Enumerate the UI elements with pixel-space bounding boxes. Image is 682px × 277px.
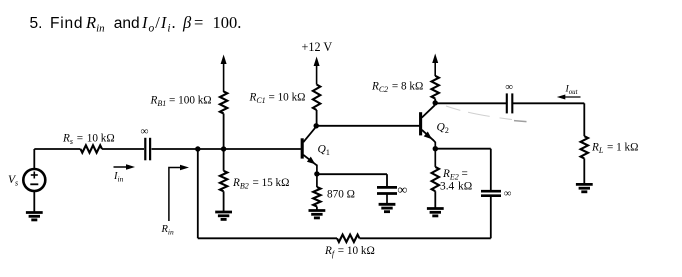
current arrow I_in: [113, 164, 135, 183]
ground (CE1): [379, 194, 396, 212]
svg-text:Iin: Iin: [113, 171, 124, 184]
svg-text:Iout: Iout: [565, 84, 579, 97]
annotation arrow R_in: [161, 165, 190, 237]
svg-text:Io/Ii.: Io/Ii.: [141, 13, 177, 35]
svg-text:Q1: Q1: [318, 144, 330, 158]
svg-text:RC2 = 8 kΩ: RC2 = 8 kΩ: [371, 81, 423, 95]
wire Cout to RL: [513, 103, 584, 136]
svg-text:+12 V: +12 V: [302, 40, 333, 54]
svg-text:Rin: Rin: [161, 224, 175, 237]
scan artifact curve: [446, 106, 512, 120]
resistor Rs 10k: [62, 133, 115, 153]
supply arrow (RB1): [221, 55, 227, 93]
capacitor Cout (infinite): [506, 82, 514, 113]
node Q2 collector: [433, 100, 438, 105]
svg-text:∞: ∞: [504, 189, 512, 200]
svg-text:RL = 1 kΩ: RL = 1 kΩ: [591, 142, 638, 156]
svg-text:870 Ω: 870 Ω: [327, 189, 355, 201]
svg-text:Vs: Vs: [8, 174, 18, 188]
+12 V supply label: [302, 40, 333, 54]
svg-text:RC1 = 10 kΩ: RC1 = 10 kΩ: [249, 92, 306, 106]
wire Q1 emitter to bypass cap: [317, 174, 387, 187]
node base bias junction: [221, 146, 226, 151]
resistor RL 1k: [581, 136, 639, 158]
node Q1 collector: [314, 123, 319, 128]
ground (RB2): [215, 191, 232, 219]
svg-text:5.: 5.: [30, 15, 43, 32]
supply arrow (RC1): [314, 57, 320, 85]
resistor RE2 3.4k: [432, 167, 473, 192]
resistor Rf 10k: [324, 235, 375, 259]
wire Rs to Cin: [102, 148, 144, 150]
svg-text:and: and: [114, 15, 140, 32]
wire Cin to Q1 base: [152, 148, 301, 150]
resistor RC1 10k: [249, 85, 321, 126]
svg-text:β: β: [182, 13, 192, 32]
wire C2 to feedback: [490, 196, 492, 238]
wire Q2 emitter to C2: [435, 149, 491, 191]
voltage source Vs: [8, 169, 45, 191]
svg-text:∞: ∞: [506, 82, 514, 93]
resistor RE1 870: [313, 187, 355, 207]
svg-text:RB1 = 100 kΩ: RB1 = 100 kΩ: [150, 94, 212, 108]
svg-text:Q2: Q2: [437, 122, 449, 136]
resistor RC2 8k: [371, 76, 439, 103]
ground (RE1): [309, 207, 326, 218]
wire Vs to Rs: [34, 149, 80, 169]
resistor RB1 100k: [150, 92, 228, 150]
wire feedback vertical: [197, 149, 199, 238]
capacitor CE1 bypass (infinite): [377, 182, 408, 197]
node Q1 emitter: [314, 171, 319, 176]
wire feedback bottom right: [360, 237, 491, 239]
transistor Q2: [421, 105, 449, 167]
wire Q2 collector to Cout: [435, 102, 506, 104]
wire feedback bottom left: [198, 237, 337, 239]
node Q2 emitter: [433, 146, 438, 151]
capacitor C2 (infinite): [481, 189, 512, 200]
svg-text:=: =: [194, 13, 203, 32]
resistor RB2 15k: [220, 149, 290, 191]
capacitor Cin (infinite): [141, 126, 151, 161]
svg-text:Find: Find: [50, 15, 83, 32]
current arrow I_out: [557, 84, 581, 100]
svg-text:3.4 kΩ: 3.4 kΩ: [440, 180, 472, 192]
svg-text:Rin: Rin: [85, 13, 105, 35]
wire Q1 collector to Q2 base: [316, 125, 419, 127]
svg-text:Rf = 10 kΩ: Rf = 10 kΩ: [324, 245, 375, 259]
ground (RL): [576, 158, 593, 191]
svg-text:100.: 100.: [213, 13, 242, 32]
svg-text:Rs = 10 kΩ: Rs = 10 kΩ: [62, 133, 115, 147]
svg-text:∞: ∞: [398, 182, 408, 197]
title text: [30, 13, 242, 35]
svg-text:RB2 = 15 kΩ: RB2 = 15 kΩ: [232, 177, 289, 191]
ground (RE2): [427, 191, 444, 216]
transistor Q1: [302, 127, 330, 187]
svg-text:∞: ∞: [141, 126, 149, 138]
ground (Vs): [26, 191, 43, 220]
node input junction: [195, 146, 200, 151]
supply arrow (RC2): [432, 54, 438, 77]
